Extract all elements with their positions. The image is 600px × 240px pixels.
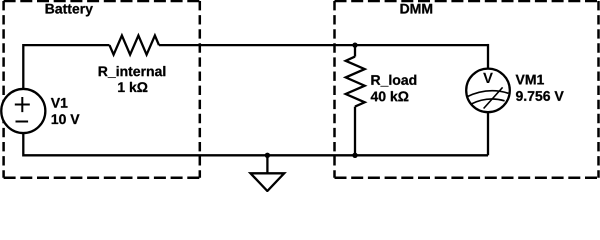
label V1 bbox=[51, 98, 68, 108]
wire resistor to voltmeter corner bbox=[159, 44, 488, 46]
V1 plus sign bbox=[15, 97, 30, 112]
voltmeter VM1 body bbox=[466, 69, 510, 113]
voltage source V1 bbox=[1, 89, 45, 133]
label Battery bbox=[46, 4, 93, 17]
wire V1 top to resistor bbox=[23, 45, 109, 90]
junction node R_load top bbox=[352, 42, 357, 47]
junction node R_load bottom bbox=[352, 153, 357, 158]
voltmeter needle bbox=[484, 87, 503, 108]
label 40 kOhm bbox=[371, 91, 409, 101]
resistor R_internal bbox=[110, 36, 160, 55]
wire node to R_load top bbox=[354, 45, 356, 56]
label 9.756 V bbox=[516, 91, 564, 101]
voltmeter V letter bbox=[483, 73, 493, 83]
wire V1 bottom + bottom rail bbox=[23, 132, 488, 155]
V1 minus sign bbox=[16, 121, 29, 123]
voltmeter scale arc upper bbox=[466, 91, 508, 97]
ground symbol bbox=[251, 173, 285, 191]
label 10 V bbox=[52, 114, 80, 124]
voltmeter scale arc lower bbox=[471, 99, 505, 104]
label DMM bbox=[401, 4, 433, 14]
DMM enclosure box bbox=[335, 1, 599, 178]
wire ground stub bbox=[266, 155, 268, 173]
Battery enclosure box bbox=[4, 1, 200, 178]
label VM1 bbox=[516, 75, 544, 85]
label R_load bbox=[371, 75, 416, 87]
label R_internal bbox=[99, 66, 166, 78]
wire R_load bottom bbox=[354, 107, 356, 156]
wire voltmeter bottom bbox=[487, 112, 489, 156]
junction node ground bbox=[265, 153, 270, 158]
label 1 kOhm bbox=[118, 82, 147, 92]
wire down to voltmeter top bbox=[487, 44, 489, 70]
resistor R_load bbox=[346, 57, 365, 107]
